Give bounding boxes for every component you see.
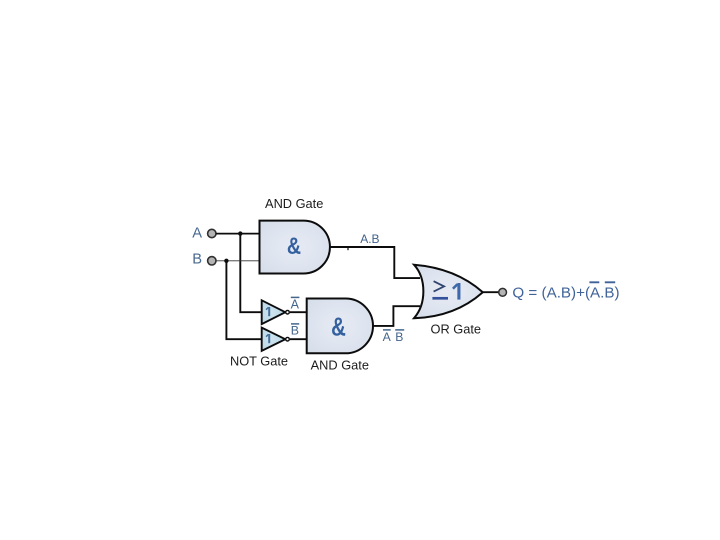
svg-text:B: B	[192, 251, 202, 267]
svg-text:AND Gate: AND Gate	[311, 357, 369, 372]
wire A to AND1	[216, 233, 261, 235]
svg-text:B: B	[291, 324, 299, 338]
svg-text:NOT Gate: NOT Gate	[230, 353, 288, 368]
wire A.B from U1 to OR gate	[330, 247, 420, 278]
svg-text:Q = (A.B)+(A.B): Q = (A.B)+(A.B)	[512, 284, 619, 301]
junction tick on A.B wire	[347, 248, 349, 250]
AND gate U2	[307, 299, 373, 354]
OR gate U5	[414, 265, 483, 319]
node B junction	[224, 259, 228, 263]
net label B-bar	[291, 324, 299, 338]
svg-text:A: A	[192, 225, 202, 241]
NOT gate U3	[262, 300, 290, 324]
AND gate U1	[260, 221, 330, 274]
node A junction	[238, 231, 242, 235]
svg-text:AND Gate: AND Gate	[265, 196, 323, 211]
NOT gate U4	[262, 328, 290, 351]
wire NOT2 output to U2	[290, 338, 307, 340]
wire A-bar.B-bar from U2 to OR gate	[373, 306, 420, 326]
svg-text:A: A	[291, 297, 300, 311]
wire B branch to NOT2	[226, 261, 261, 339]
svg-text:A: A	[383, 330, 392, 344]
net label A-bar.B-bar	[383, 330, 405, 344]
output label Q = (A.B)+(A-bar.B-bar)	[512, 282, 619, 301]
svg-text:&: &	[331, 312, 346, 341]
input terminal B	[208, 257, 216, 265]
wire B to AND1	[216, 260, 261, 262]
svg-text:A.B: A.B	[360, 232, 379, 246]
wire NOT1 output to U2	[290, 311, 307, 313]
svg-text:B: B	[395, 330, 403, 344]
svg-text:OR Gate: OR Gate	[431, 322, 482, 337]
svg-text:&: &	[287, 232, 301, 260]
net label A-bar	[291, 297, 300, 311]
input terminal A	[208, 229, 216, 237]
output terminal Q	[499, 288, 507, 296]
wire OR output	[483, 291, 499, 293]
wire A branch to NOT1	[240, 234, 261, 313]
